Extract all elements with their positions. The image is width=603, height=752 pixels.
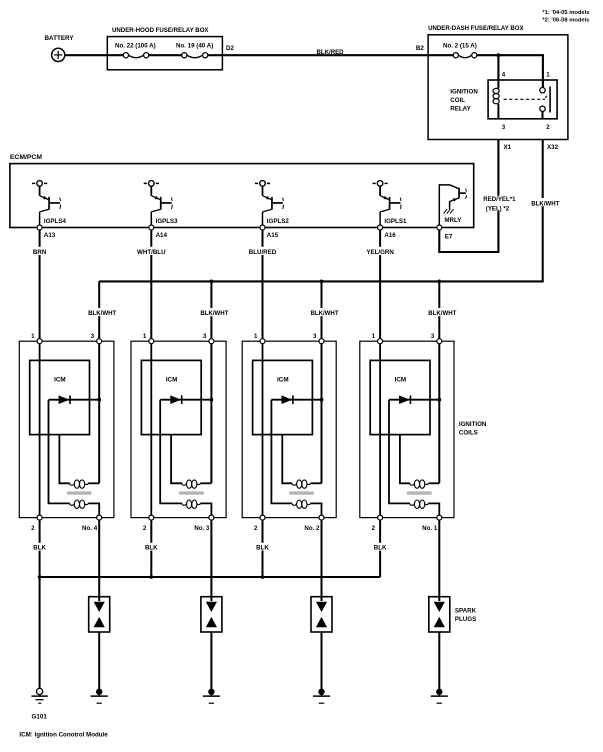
ground bus junction 1 — [38, 575, 42, 579]
ignition coil unit No. 3 outer box — [131, 341, 226, 517]
wire spark plug 4 to ground — [438, 632, 440, 690]
junction diode/pin3 wire — [210, 398, 214, 402]
note *1/*2 models — [542, 10, 589, 23]
ignition coil unit No. 2 outer box — [242, 341, 336, 517]
wire G101 drop — [39, 577, 41, 688]
coil No. 4 pin 1 — [31, 333, 42, 344]
wire BLK from coil No. 3 pin 2 — [150, 520, 152, 577]
svg-text:2: 2 — [254, 525, 258, 532]
diode line — [49, 399, 100, 401]
ECM pin A15 — [260, 225, 279, 239]
ground bus — [40, 576, 381, 578]
wire battery to under-hood box — [65, 54, 108, 56]
wire ICM to primary winding — [59, 435, 69, 484]
svg-text:BLK/WHT: BLK/WHT — [200, 310, 228, 317]
svg-text:No. 2: No. 2 — [304, 525, 320, 532]
ground at spark plug 2 — [203, 689, 220, 704]
diode — [59, 395, 71, 404]
wire diode to secondary winding — [271, 400, 292, 504]
spark plug 2 — [201, 597, 222, 632]
BLK/WHT drop to coil 3 pin 3 — [309, 280, 341, 339]
wire BLK/RED to under-dash box, label B2 — [222, 45, 428, 56]
svg-text:BLK/WHT: BLK/WHT — [88, 310, 116, 317]
primary winding — [182, 480, 212, 488]
wire secondary to output pin — [200, 503, 211, 515]
ignition coil relay U1 — [450, 80, 557, 119]
wire diode to secondary winding — [160, 400, 182, 504]
wire secondary to output pin — [311, 503, 322, 515]
label BLK/WHT on X32 wire — [530, 198, 562, 206]
coil core — [67, 491, 92, 494]
ignition coil unit No. 1 outer box — [360, 341, 454, 517]
secondary winding — [292, 500, 311, 508]
svg-text:ICM: ICM — [395, 376, 407, 383]
BLK/WHT drop to coil 1 pin 3 — [86, 281, 118, 338]
svg-text:COIL: COIL — [450, 97, 465, 104]
ECM pin A16 — [378, 225, 397, 239]
wire coil output No. 4 to spark plug — [98, 520, 100, 601]
svg-text:*2: '06-08 models: *2: '06-08 models — [542, 18, 589, 24]
coil No. 1 pin 2 — [372, 515, 383, 532]
diode line — [160, 399, 211, 401]
coil No. 2 output pin No. 2 — [304, 515, 324, 532]
coil No. 1 output pin No. 1 — [422, 515, 442, 532]
svg-text:A16: A16 — [384, 232, 396, 239]
coil No. 4 pin 3 — [91, 333, 102, 344]
under-hood fuse/relay box — [107, 27, 222, 70]
driver transistor IGPLS2 — [255, 181, 289, 225]
svg-text:BLK/WHT: BLK/WHT — [310, 310, 338, 317]
junction node — [496, 53, 500, 57]
ECM/PCM box — [10, 154, 474, 227]
svg-text:BLU/RED: BLU/RED — [249, 249, 277, 256]
ground G101 — [31, 688, 47, 720]
spark plug 1 — [89, 597, 110, 632]
svg-text:IGPLS4: IGPLS4 — [44, 218, 67, 225]
svg-text:No. 4: No. 4 — [82, 525, 98, 532]
coil No. 4 pin 2 — [31, 515, 42, 532]
svg-text:E7: E7 — [445, 233, 453, 240]
driver transistor IGPLS4 — [32, 181, 66, 225]
svg-text:A15: A15 — [267, 232, 279, 239]
svg-text:2: 2 — [31, 525, 35, 532]
wire ICM to primary winding — [282, 435, 292, 484]
under-dash fuse/relay box — [428, 25, 568, 140]
primary winding — [410, 480, 440, 488]
label IGNITION COILS — [459, 421, 487, 437]
wire pin1 through ICM to pin2 — [379, 344, 381, 516]
wire diode to secondary winding — [389, 400, 410, 504]
svg-text:MRLY: MRLY — [444, 217, 462, 224]
svg-text:BLK: BLK — [33, 545, 46, 552]
wire secondary to output pin — [88, 503, 99, 515]
svg-text:4: 4 — [502, 72, 506, 79]
svg-text:(YEL) *2: (YEL) *2 — [486, 205, 510, 212]
svg-text:ICM: Ignition Conotrol Module: ICM: Ignition Conotrol Module — [19, 731, 108, 738]
svg-text:D2: D2 — [226, 45, 234, 52]
svg-text:1: 1 — [546, 72, 550, 79]
ground bus junction 3 — [261, 575, 265, 579]
svg-text:BRN: BRN — [33, 249, 47, 256]
wire junction down to primary winding — [210, 400, 212, 484]
svg-text:No. 3: No. 3 — [194, 525, 210, 532]
wire spark plug 3 to ground — [321, 632, 323, 690]
wire coil output No. 3 to spark plug — [210, 520, 212, 601]
svg-text:1: 1 — [143, 333, 147, 340]
ICM module box in coil No. 4 — [30, 360, 90, 434]
secondary winding — [410, 500, 429, 508]
svg-text:BLK/WHT: BLK/WHT — [531, 200, 559, 207]
relay dashed link — [504, 98, 546, 100]
connector labels X1 X32 — [504, 144, 559, 151]
svg-text:3: 3 — [502, 124, 506, 131]
coil core — [289, 491, 314, 494]
wire secondary to output pin — [428, 503, 439, 515]
svg-text:BLK: BLK — [374, 545, 387, 552]
fuse No. 2 (15 A) — [443, 43, 477, 58]
wire BLK from coil No. 2 pin 2 — [262, 520, 264, 577]
svg-text:X32: X32 — [547, 144, 559, 151]
label BLK 2 — [144, 543, 158, 551]
ECM pin A14 — [149, 225, 168, 239]
svg-text:X1: X1 — [504, 144, 512, 151]
wire junction to relay pin 1 — [498, 55, 543, 87]
ECM pin E7 — [437, 225, 453, 240]
svg-text:1: 1 — [372, 333, 376, 340]
ECM pin A13 — [37, 225, 56, 239]
svg-text:IGNITION: IGNITION — [450, 88, 478, 95]
wire spark plug 2 to ground — [210, 632, 212, 690]
svg-text:3: 3 — [313, 333, 317, 340]
diode line — [389, 399, 439, 401]
svg-text:YEL/GRN: YEL/GRN — [366, 249, 394, 256]
relay pin labels — [502, 72, 551, 132]
coil No. 1 pin 3 — [431, 333, 442, 344]
relay switch contacts — [540, 80, 550, 119]
svg-text:RED/YEL*1: RED/YEL*1 — [483, 196, 516, 203]
fuse No. 22 (100 A) — [115, 43, 156, 58]
coil core — [179, 491, 204, 494]
coil No. 3 output pin No. 3 — [194, 515, 214, 532]
svg-text:IGPLS1: IGPLS1 — [384, 218, 407, 225]
label BLU/RED — [248, 247, 277, 255]
svg-text:ICM: ICM — [166, 376, 178, 383]
svg-text:BLK/WHT: BLK/WHT — [428, 310, 456, 317]
label SPARK PLUGS — [455, 608, 477, 624]
svg-text:BATTERY: BATTERY — [45, 35, 75, 42]
wire junction to relay pin 4 — [497, 55, 499, 80]
wire coil output No. 1 to spark plug — [438, 520, 440, 601]
wire diode to secondary winding — [49, 400, 70, 504]
wire into fuse No.22 — [107, 54, 123, 56]
svg-text:IGNITION: IGNITION — [459, 421, 487, 428]
label RED/YEL*1 (YEL)*2 — [483, 196, 518, 213]
battery — [45, 35, 75, 61]
spark plug 4 — [429, 597, 450, 632]
junction diode/pin3 wire — [320, 398, 324, 402]
svg-text:BLK: BLK — [145, 545, 158, 552]
wire BLK from coil No. 1 pin 2 — [379, 520, 381, 577]
junction diode/pin3 wire — [437, 398, 441, 402]
wire pin3 down to diode junction — [98, 344, 100, 400]
label BLK 4 — [373, 543, 387, 551]
wire pin1 through ICM to pin2 — [39, 344, 41, 516]
svg-text:PLUGS: PLUGS — [455, 616, 476, 623]
primary winding — [292, 480, 322, 488]
wire BRN from A13 down — [39, 230, 41, 339]
junction diode/pin3 wire — [97, 398, 101, 402]
wire WHT/BLU from A14 down — [150, 230, 152, 339]
wire BLK from coil No. 4 pin 2 — [39, 520, 41, 577]
driver transistor IGPLS3 — [144, 181, 178, 225]
wire ICM to primary winding — [171, 435, 182, 484]
BLK/WHT drop to coil 4 pin 3 — [427, 280, 459, 339]
coil No. 1 pin 1 — [372, 333, 383, 344]
diode — [170, 395, 182, 404]
svg-text:COILS: COILS — [459, 429, 478, 436]
svg-text:WHT/BLU: WHT/BLU — [137, 249, 166, 256]
ICM module box in coil No. 2 — [253, 360, 313, 434]
svg-text:1: 1 — [31, 333, 35, 340]
wire BLU/RED from A15 down — [262, 230, 264, 339]
diode line — [271, 399, 321, 401]
wire junction down to primary winding — [98, 400, 100, 484]
spark plug 3 — [311, 597, 332, 632]
wire fuse to junction — [477, 54, 499, 56]
wire junction down to primary winding — [438, 400, 440, 484]
coil No. 3 pin 2 — [143, 515, 154, 532]
svg-text:ICM: ICM — [54, 376, 66, 383]
ground at spark plug 3 — [313, 689, 330, 704]
primary winding — [70, 480, 100, 488]
ground bus junction 2 — [149, 575, 153, 579]
svg-text:3: 3 — [431, 333, 435, 340]
svg-text:3: 3 — [91, 333, 95, 340]
svg-text:G101: G101 — [32, 713, 48, 720]
ground at spark plug 4 — [431, 689, 448, 704]
svg-text:*1: '04-05 models: *1: '04-05 models — [542, 10, 589, 16]
wire pin1 through ICM to pin2 — [262, 344, 264, 516]
relay coil winding — [493, 80, 499, 119]
svg-text:IGPLS3: IGPLS3 — [156, 218, 179, 225]
secondary winding — [182, 500, 201, 508]
svg-text:B2: B2 — [416, 45, 424, 52]
coil No. 3 pin 1 — [143, 333, 154, 344]
label YEL/GRN — [365, 247, 394, 255]
label WHT/BLU — [137, 247, 166, 255]
driver transistor MRLY — [439, 185, 466, 225]
svg-text:ECM/PCM: ECM/PCM — [10, 154, 42, 161]
coil core — [407, 491, 432, 494]
wire ICM to primary winding — [400, 435, 410, 484]
driver transistor IGPLS1 — [373, 181, 407, 225]
wire E7 to relay pin 3 (X1) — [439, 140, 498, 253]
svg-text:ICM: ICM — [277, 376, 289, 383]
svg-text:UNDER-DASH FUSE/RELAY BOX: UNDER-DASH FUSE/RELAY BOX — [428, 25, 524, 32]
wire pin3 down to diode junction — [438, 344, 440, 400]
wire fuse to box edge, label D2 — [208, 45, 235, 55]
svg-text:3: 3 — [203, 333, 207, 340]
svg-text:A13: A13 — [44, 232, 56, 239]
wire junction down to primary winding — [321, 400, 323, 484]
BLK/WHT drop to coil 2 pin 3 — [199, 280, 231, 339]
wire into fuse No.2 — [428, 54, 453, 56]
coil No. 4 output pin No. 4 — [82, 515, 102, 532]
wire YEL/GRN from A16 down — [379, 230, 381, 339]
svg-text:No. 2 (15 A): No. 2 (15 A) — [443, 43, 477, 50]
svg-text:RELAY: RELAY — [450, 105, 471, 112]
svg-text:2: 2 — [372, 525, 376, 532]
wire pin3 down to diode junction — [321, 344, 323, 400]
svg-text:2: 2 — [546, 124, 550, 131]
svg-text:No. 19 (40 A): No. 19 (40 A) — [176, 43, 213, 50]
svg-text:BLK/RED: BLK/RED — [317, 49, 345, 56]
svg-text:No. 22 (100 A): No. 22 (100 A) — [115, 43, 156, 50]
ICM module box in coil No. 1 — [370, 360, 430, 434]
label BRN — [33, 247, 47, 255]
coil No. 2 pin 2 — [254, 515, 265, 532]
coil No. 3 pin 3 — [203, 333, 214, 344]
diode — [282, 395, 294, 404]
diode — [399, 395, 411, 404]
label BLK 1 — [33, 543, 47, 551]
svg-text:2: 2 — [143, 525, 147, 532]
svg-text:1: 1 — [254, 333, 258, 340]
wire pin1 through ICM to pin2 — [150, 344, 152, 516]
ground at spark plug 1 — [91, 689, 108, 704]
wire spark plug 1 to ground — [98, 632, 100, 690]
secondary winding — [70, 500, 89, 508]
wire pin3 down to diode junction — [210, 344, 212, 400]
label BLK 3 — [256, 543, 270, 551]
wire between fuses — [149, 54, 182, 56]
svg-text:UNDER-HOOD FUSE/RELAY BOX: UNDER-HOOD FUSE/RELAY BOX — [112, 27, 209, 34]
fuse No. 19 (40 A) — [176, 43, 213, 58]
ICM module box in coil No. 3 — [141, 360, 201, 434]
svg-text:IGPLS2: IGPLS2 — [267, 218, 290, 225]
svg-text:A14: A14 — [156, 232, 168, 239]
svg-text:BLK: BLK — [256, 545, 269, 552]
wire coil output No. 2 to spark plug — [321, 520, 323, 601]
ignition coil unit No. 4 outer box — [19, 341, 114, 517]
svg-text:No. 1: No. 1 — [422, 525, 438, 532]
wire BLK/WHT from relay pin 2 (X32) to bus — [99, 140, 543, 282]
coil No. 2 pin 1 — [254, 333, 265, 344]
svg-text:SPARK: SPARK — [455, 608, 477, 615]
coil No. 2 pin 3 — [313, 333, 324, 344]
